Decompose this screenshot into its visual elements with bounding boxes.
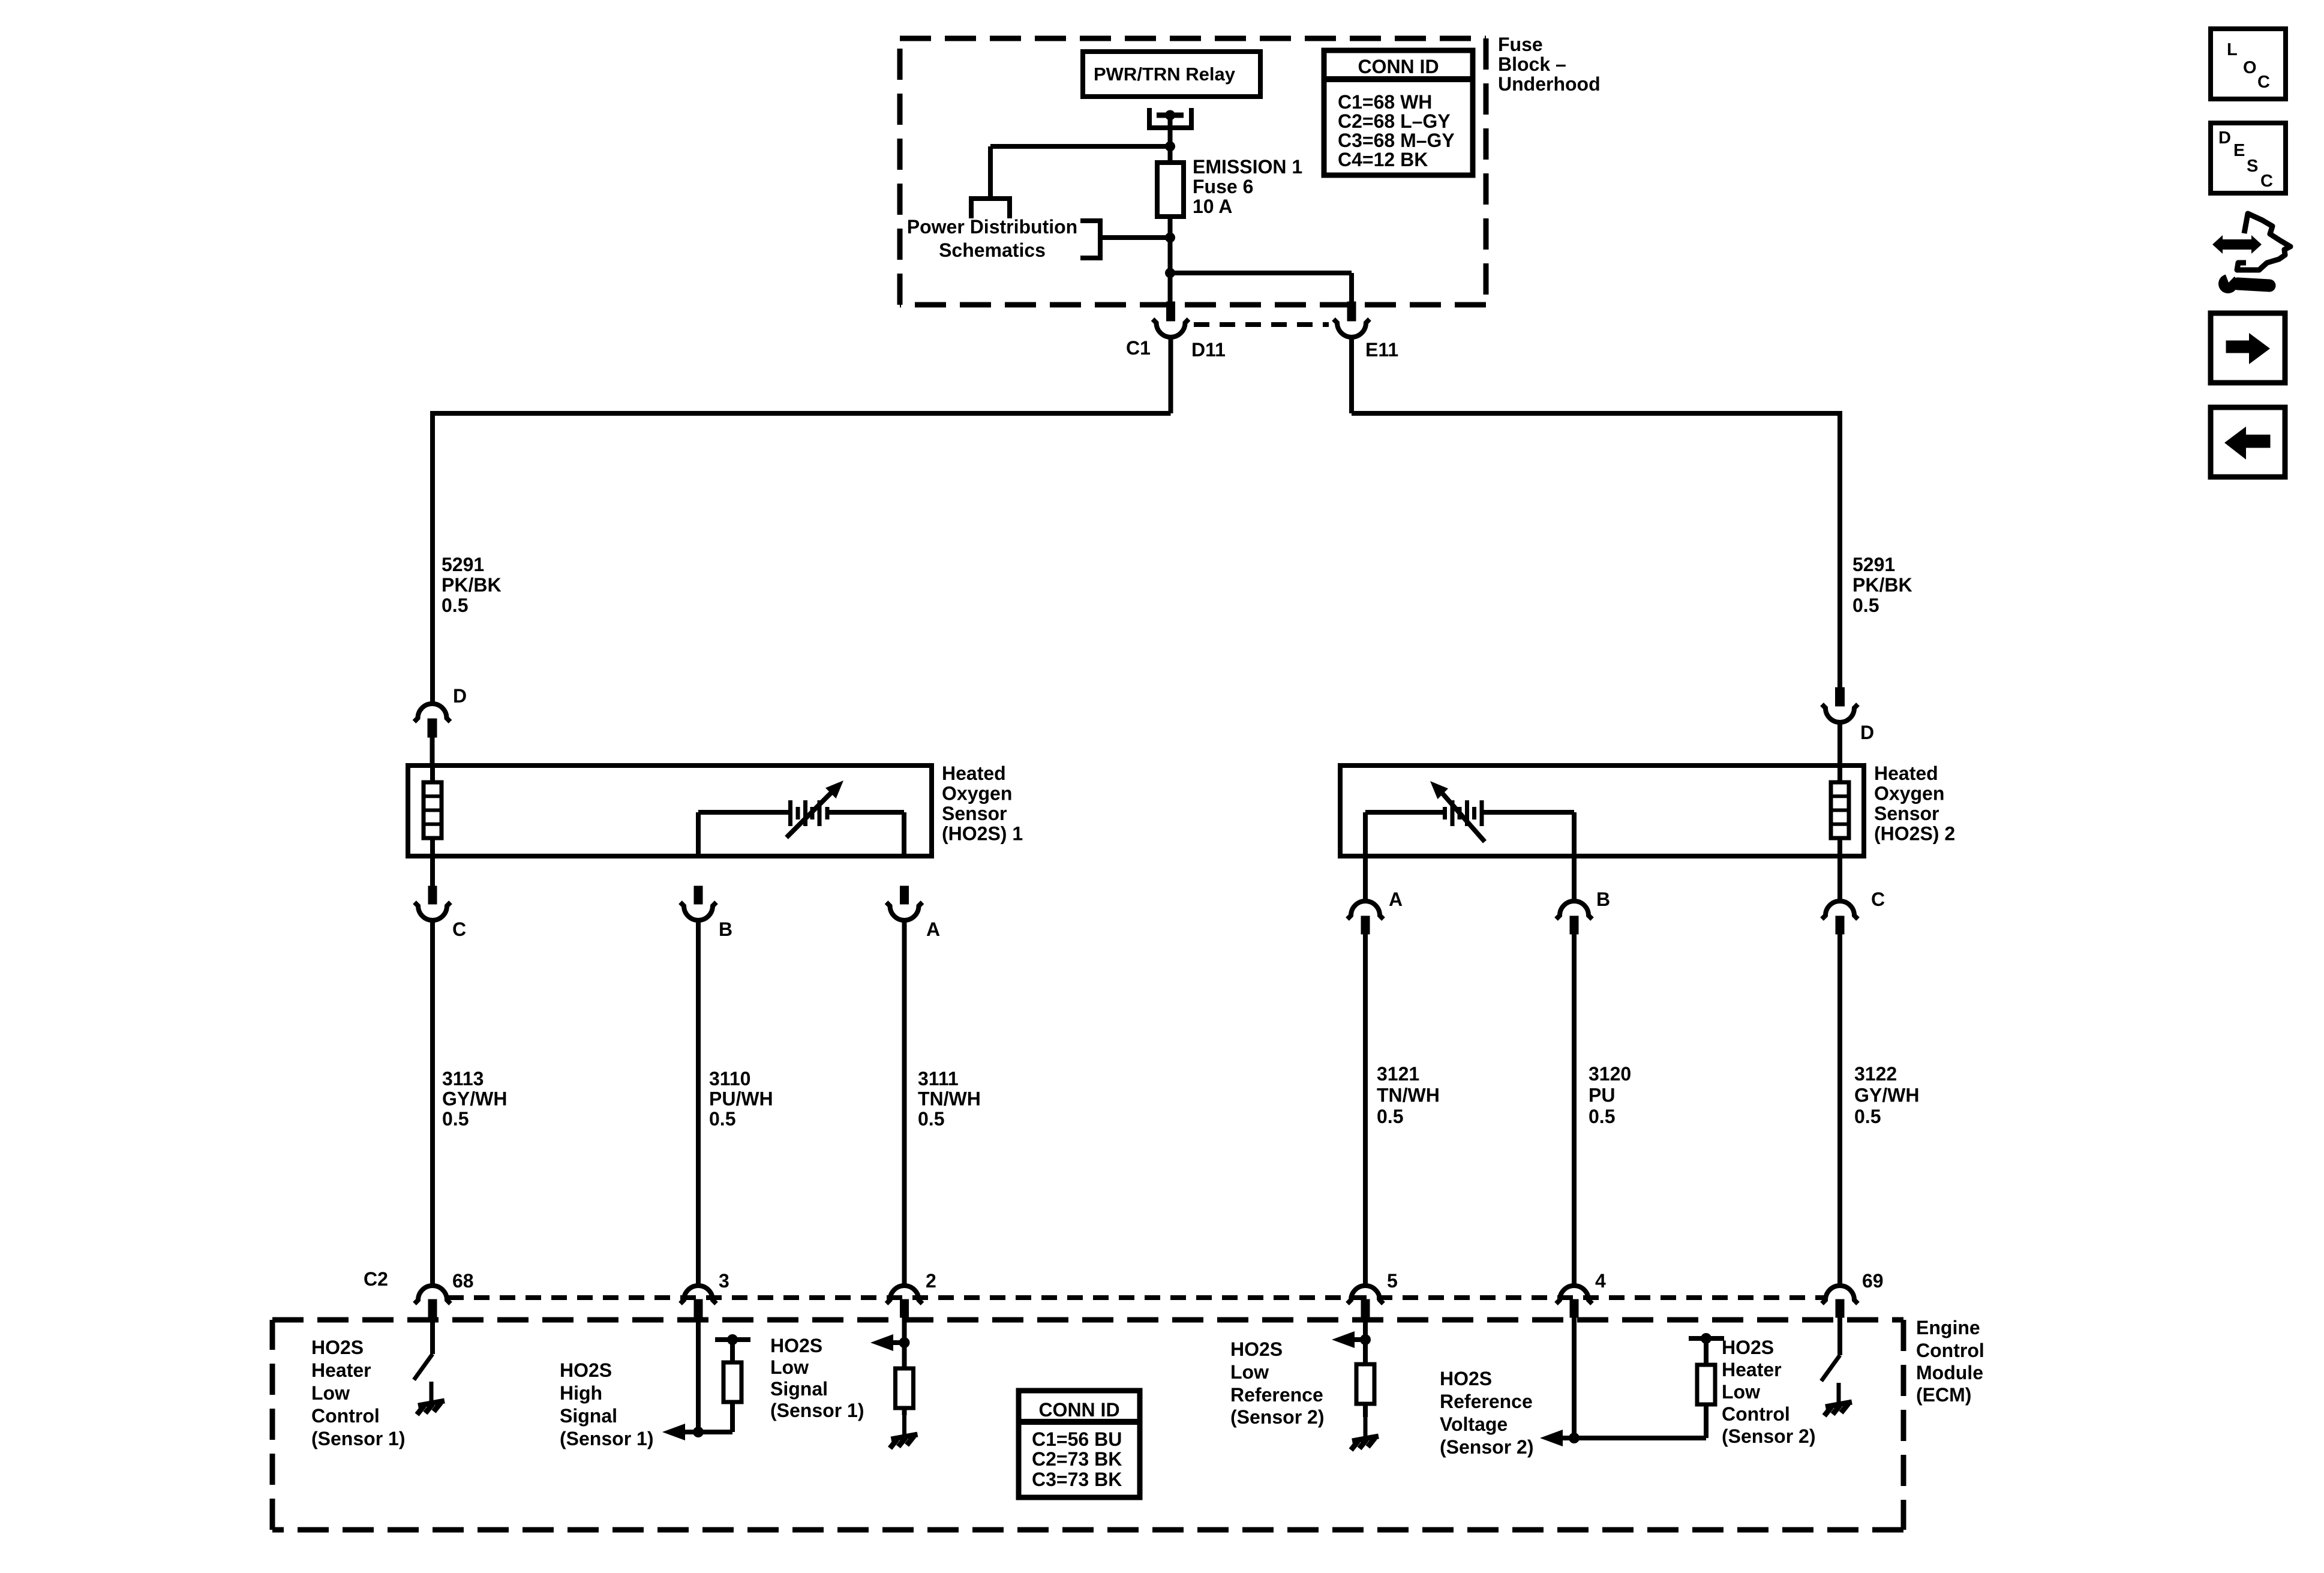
label C (HO2S 1) bbox=[452, 918, 466, 940]
wire fuse bottom lead bbox=[1168, 217, 1173, 302]
svg-text:0.5: 0.5 bbox=[709, 1108, 735, 1130]
wire heater bottom (HO2S1) bbox=[430, 838, 435, 886]
label D11 bbox=[1191, 339, 1226, 361]
signal arrow (HO2S high signal) bbox=[662, 1424, 698, 1440]
wire resistor R3 to ground bbox=[1363, 1404, 1368, 1417]
svg-text:HO2S: HO2S bbox=[1230, 1338, 1283, 1360]
svg-text:C: C bbox=[1871, 888, 1885, 910]
wire heater top (HO2S2) bbox=[1837, 766, 1842, 782]
svg-text:CONN ID: CONN ID bbox=[1358, 56, 1439, 77]
ECM connector pin 69 male terminal bbox=[1836, 1299, 1844, 1317]
signal arrow (HO2S low reference) bbox=[1332, 1331, 1365, 1348]
fuse block label 'Fuse Block - Underhood' bbox=[1498, 34, 1601, 95]
internal rail stub (pin 4) bbox=[1689, 1336, 1724, 1341]
connector pin A (HO2S 2) male terminal bbox=[1361, 916, 1370, 934]
CONN ID table (ECM) bbox=[1019, 1391, 1140, 1497]
svg-text:(HO2S) 2: (HO2S) 2 bbox=[1874, 823, 1955, 845]
switch (HO2S heater low control 2) bbox=[1821, 1355, 1840, 1381]
node: junction below fuse bbox=[1165, 233, 1175, 243]
svg-text:(Sensor 1): (Sensor 1) bbox=[311, 1428, 405, 1449]
svg-text:HO2S: HO2S bbox=[1440, 1368, 1492, 1389]
wire E11 down bbox=[1349, 337, 1354, 413]
wire label 3120 PU 0.5 bbox=[1589, 1063, 1631, 1127]
ground G2 (chassis) for pin 2 bbox=[890, 1415, 918, 1448]
wire HO2S1 sense right segment bbox=[828, 810, 904, 815]
ECM connector pin 5 male terminal bbox=[1361, 1299, 1370, 1317]
svg-text:Heater: Heater bbox=[311, 1359, 371, 1381]
label HO2S High Signal (Sensor 1) bbox=[560, 1359, 653, 1449]
node: branch to E11 bbox=[1165, 268, 1175, 278]
svg-text:Reference: Reference bbox=[1230, 1384, 1323, 1406]
wire HO2S2 sense A leg bbox=[1363, 812, 1368, 856]
HO2S 1 component box bbox=[408, 766, 932, 856]
svg-text:GY/WH: GY/WH bbox=[442, 1088, 507, 1110]
wire heater bottom (HO2S2) bbox=[1837, 838, 1842, 856]
wire relay to branch node bbox=[1168, 115, 1173, 146]
svg-text:3120: 3120 bbox=[1589, 1063, 1631, 1085]
svg-text:PK/BK: PK/BK bbox=[1852, 574, 1912, 596]
svg-text:69: 69 bbox=[1862, 1270, 1884, 1292]
label D (right) bbox=[1860, 722, 1874, 743]
HO2S 2 heater element bbox=[1831, 782, 1849, 838]
ECM connector pin 68 male terminal bbox=[428, 1299, 437, 1317]
label C (HO2S 2) bbox=[1871, 888, 1885, 910]
svg-text:C2=68 L–GY: C2=68 L–GY bbox=[1338, 110, 1451, 132]
ECM connector pin 68 female arc bbox=[415, 1286, 451, 1304]
wire label 3121 TN/WH 0.5 bbox=[1377, 1063, 1440, 1127]
connector pin A (HO2S 2) female arc bbox=[1347, 901, 1383, 919]
svg-text:D: D bbox=[2218, 128, 2231, 148]
connector pin D (HO2S 1) female arc bbox=[415, 704, 451, 722]
wire pin C to ECM 68 bbox=[430, 920, 435, 1286]
wire pin A to ECM 2 bbox=[902, 920, 907, 1286]
svg-text:L: L bbox=[2227, 40, 2238, 59]
wire HO2S2 box to pin C bbox=[1837, 856, 1842, 902]
relay K1 contact bracket bbox=[1149, 108, 1191, 128]
ECM connector pin 3 male terminal bbox=[694, 1299, 702, 1317]
svg-text:GY/WH: GY/WH bbox=[1854, 1085, 1919, 1106]
svg-text:HO2S: HO2S bbox=[770, 1335, 822, 1356]
connector pin A (HO2S 1) male terminal bbox=[900, 886, 909, 904]
svg-text:E: E bbox=[2233, 141, 2245, 160]
svg-text:Fuse: Fuse bbox=[1498, 34, 1543, 55]
ECM connector pin 2 male terminal bbox=[900, 1299, 909, 1317]
svg-text:(ECM): (ECM) bbox=[1916, 1384, 1971, 1406]
connector pin B (HO2S 1) female arc bbox=[680, 902, 716, 920]
svg-text:5: 5 bbox=[1387, 1270, 1398, 1292]
svg-text:C1=56 BU: C1=56 BU bbox=[1032, 1428, 1122, 1450]
wire ECM pin 4 internal bbox=[1572, 1317, 1577, 1438]
label C2 (ECM connector) bbox=[364, 1268, 388, 1290]
ground G4 (chassis) for pin 69 bbox=[1824, 1383, 1852, 1416]
svg-text:TN/WH: TN/WH bbox=[918, 1088, 981, 1110]
connector C1 pin D11 male terminal bbox=[1167, 302, 1175, 321]
label HO2S Heater Low Control (Sensor 2) bbox=[1722, 1337, 1815, 1447]
ECM dashed enclosure bbox=[272, 1320, 1903, 1530]
svg-text:S: S bbox=[2247, 157, 2258, 176]
label B (HO2S 2) bbox=[1596, 888, 1610, 910]
svg-text:E11: E11 bbox=[1365, 339, 1398, 361]
wire resistor R2 to ground bbox=[902, 1408, 907, 1415]
svg-text:TN/WH: TN/WH bbox=[1377, 1085, 1440, 1106]
svg-text:3121: 3121 bbox=[1377, 1063, 1419, 1085]
svg-text:0.5: 0.5 bbox=[1854, 1106, 1881, 1127]
svg-text:Heated: Heated bbox=[942, 763, 1006, 784]
svg-text:C: C bbox=[2260, 172, 2273, 191]
svg-text:Heated: Heated bbox=[1874, 763, 1938, 784]
svg-text:Voltage: Voltage bbox=[1440, 1413, 1508, 1435]
label ECM pin 5 bbox=[1387, 1270, 1398, 1292]
ECM connector pin 69 female arc bbox=[1822, 1286, 1858, 1304]
signal arrow (HO2S low signal) bbox=[870, 1334, 905, 1351]
resistor R4 (pin 4) bbox=[1697, 1365, 1715, 1404]
connector pin D (HO2S 2) male terminal bbox=[1836, 688, 1845, 706]
label ECM pin 2 bbox=[926, 1270, 936, 1292]
fuse F6 EMISSION 1 body bbox=[1157, 163, 1184, 217]
wire D to HO2S1 box bbox=[430, 737, 435, 766]
connector pin C (HO2S 2) female arc bbox=[1822, 901, 1858, 919]
wire HO2S1 sense B leg bbox=[696, 812, 701, 856]
label HO2S Low Reference (Sensor 2) bbox=[1230, 1338, 1324, 1428]
connector pin B (HO2S 2) female arc bbox=[1556, 901, 1592, 919]
ECM connector pin 3 female arc bbox=[680, 1286, 716, 1304]
resistor R1 (pin 3 pull-up) bbox=[723, 1362, 741, 1402]
ground G1 (chassis) for pin 68 bbox=[417, 1382, 445, 1415]
wire pin B to ECM 3 bbox=[696, 920, 701, 1286]
svg-text:D: D bbox=[1860, 722, 1874, 743]
label B (HO2S 1) bbox=[719, 918, 732, 940]
connector pin C (HO2S 2) male terminal bbox=[1836, 916, 1844, 934]
ECM connector pin 4 male terminal bbox=[1570, 1299, 1578, 1317]
svg-text:A: A bbox=[926, 918, 940, 940]
connector pin B (HO2S 2) male terminal bbox=[1570, 916, 1578, 934]
fuse block - underhood dashed enclosure bbox=[900, 38, 1486, 305]
svg-text:Signal: Signal bbox=[770, 1378, 828, 1400]
svg-text:PWR/TRN Relay: PWR/TRN Relay bbox=[1094, 64, 1236, 85]
icon box LOC bbox=[2211, 29, 2286, 99]
label E11 bbox=[1365, 339, 1398, 361]
svg-text:(Sensor 1): (Sensor 1) bbox=[770, 1400, 864, 1421]
wire HO2S2 sense B leg bbox=[1572, 812, 1577, 856]
icon box DESC bbox=[2211, 123, 2286, 193]
svg-text:A: A bbox=[1389, 888, 1403, 910]
label D (left) bbox=[453, 685, 467, 707]
svg-text:Signal: Signal bbox=[560, 1405, 617, 1427]
HO2S 2 variable arrow bbox=[1430, 781, 1485, 842]
svg-text:0.5: 0.5 bbox=[1377, 1106, 1403, 1127]
node: branch to power distribution (upper) bbox=[1165, 142, 1175, 152]
svg-text:Module: Module bbox=[1916, 1362, 1983, 1383]
wire label 3122 GY/WH 0.5 bbox=[1854, 1063, 1919, 1127]
node: pin 3 junction bbox=[693, 1427, 704, 1437]
wire HO2S2 box to pin B bbox=[1572, 856, 1577, 902]
label Heated Oxygen Sensor (HO2S) 2 bbox=[1874, 763, 1955, 845]
off-page bracket (power distribution schematics ref) bbox=[1080, 221, 1100, 258]
svg-text:CONN ID: CONN ID bbox=[1038, 1399, 1119, 1421]
node: relay contact junction bbox=[1165, 110, 1175, 121]
wire junction to resistor leg (pin 4) bbox=[1574, 1404, 1706, 1438]
wire right drop x=3067 bbox=[1837, 411, 1842, 688]
CONN ID table (fuse block) bbox=[1324, 50, 1473, 175]
svg-text:(Sensor 1): (Sensor 1) bbox=[560, 1428, 653, 1449]
resistor R3 (pin 5) bbox=[1356, 1364, 1374, 1404]
svg-text:D: D bbox=[453, 685, 467, 707]
svg-text:0.5: 0.5 bbox=[918, 1108, 944, 1130]
wire D11 down bbox=[1169, 337, 1173, 413]
svg-text:68: 68 bbox=[452, 1270, 474, 1292]
wire label 5291 PK/BK 0.5 (left) bbox=[442, 554, 502, 616]
svg-text:C2=73 BK: C2=73 BK bbox=[1032, 1448, 1122, 1470]
label ECM pin 4 bbox=[1595, 1270, 1606, 1292]
svg-text:Block –: Block – bbox=[1498, 53, 1566, 75]
wire right run at y=691 bbox=[1352, 411, 1840, 416]
wire HO2S2 sense left segment bbox=[1365, 810, 1445, 815]
svg-text:3: 3 bbox=[719, 1270, 729, 1292]
svg-text:2: 2 bbox=[926, 1270, 936, 1292]
HO2S 1 variable arrow bbox=[786, 781, 843, 837]
svg-text:Low: Low bbox=[770, 1356, 809, 1378]
connector C1 pin D11 female arc bbox=[1153, 319, 1189, 337]
icon adjust (hand with wrench) bbox=[2212, 214, 2290, 293]
svg-text:Oxygen: Oxygen bbox=[942, 783, 1012, 804]
svg-text:C1=68 WH: C1=68 WH bbox=[1338, 91, 1432, 113]
icon box arrow right bbox=[2211, 313, 2285, 383]
svg-text:(HO2S) 1: (HO2S) 1 bbox=[942, 823, 1023, 845]
svg-text:Engine: Engine bbox=[1916, 1317, 1980, 1338]
wire label 5291 PK/BK 0.5 (right) bbox=[1852, 554, 1912, 616]
node: pin 4 junction bbox=[1569, 1433, 1580, 1443]
svg-text:0.5: 0.5 bbox=[442, 595, 468, 616]
relay K1 contact bar bbox=[1157, 113, 1184, 118]
svg-text:Reference: Reference bbox=[1440, 1391, 1533, 1412]
connector pin D (HO2S 2) female arc bbox=[1822, 704, 1858, 722]
wire label 3110 PU/WH 0.5 bbox=[709, 1068, 773, 1130]
svg-text:Oxygen: Oxygen bbox=[1874, 783, 1944, 804]
wire fuse top lead bbox=[1168, 146, 1173, 163]
wire HO2S1 sense left segment bbox=[698, 810, 789, 815]
label ECM pin 69 bbox=[1862, 1270, 1884, 1292]
ECM connector pin 2 female arc bbox=[887, 1286, 923, 1304]
svg-text:0.5: 0.5 bbox=[442, 1108, 469, 1130]
svg-text:Low: Low bbox=[311, 1382, 350, 1404]
wire bracket to fuse wire bbox=[1100, 235, 1170, 240]
connector C1 pin E11 female arc bbox=[1334, 319, 1370, 337]
wire ECM pin 2 internal upper bbox=[902, 1317, 907, 1368]
svg-text:Schematics: Schematics bbox=[939, 239, 1046, 261]
svg-text:D11: D11 bbox=[1191, 339, 1226, 361]
svg-text:HO2S: HO2S bbox=[1722, 1337, 1774, 1358]
wire branch left at y=244 bbox=[990, 144, 1170, 149]
label 'Power Distribution Schematics' bbox=[907, 216, 1077, 261]
svg-text:C: C bbox=[452, 918, 466, 940]
svg-text:Control: Control bbox=[311, 1405, 380, 1427]
internal rail stub (pin 3) bbox=[715, 1337, 750, 1342]
svg-text:C3=68 M–GY: C3=68 M–GY bbox=[1338, 130, 1455, 151]
svg-text:Fuse 6: Fuse 6 bbox=[1193, 176, 1253, 197]
connector pin B (HO2S 1) male terminal bbox=[694, 886, 702, 904]
svg-text:0.5: 0.5 bbox=[1852, 595, 1879, 616]
label HO2S Heater Low Control (Sensor 1) bbox=[311, 1337, 405, 1449]
fuse F6 label 'EMISSION 1 / Fuse 6 / 10 A' bbox=[1193, 156, 1302, 217]
svg-text:Power Distribution: Power Distribution bbox=[907, 216, 1077, 238]
svg-text:(Sensor 2): (Sensor 2) bbox=[1230, 1406, 1324, 1428]
connector pin C (HO2S 1) male terminal bbox=[428, 886, 437, 904]
svg-text:C4=12 BK: C4=12 BK bbox=[1338, 149, 1428, 170]
connector pin C (HO2S 1) female arc bbox=[415, 902, 451, 920]
svg-text:B: B bbox=[1596, 888, 1610, 910]
node: pin 5 junction bbox=[1360, 1334, 1371, 1345]
connector C1 pin E11 male terminal bbox=[1347, 302, 1356, 321]
relay K1 name text bbox=[1094, 64, 1236, 85]
connector pin D (HO2S 1) male terminal bbox=[428, 719, 437, 737]
svg-text:(Sensor 2): (Sensor 2) bbox=[1440, 1436, 1533, 1458]
wire heater top (HO2S1) bbox=[430, 766, 435, 782]
svg-text:PK/BK: PK/BK bbox=[442, 574, 502, 596]
svg-text:EMISSION 1: EMISSION 1 bbox=[1193, 156, 1302, 178]
wire ECM pin 69 internal bbox=[1837, 1317, 1842, 1355]
resistor R2 (pin 2) bbox=[896, 1368, 914, 1408]
svg-text:3122: 3122 bbox=[1854, 1063, 1897, 1085]
svg-text:Sensor: Sensor bbox=[1874, 803, 1939, 824]
wire left run at y=691 bbox=[433, 411, 1171, 416]
node: pin 2 junction bbox=[899, 1337, 910, 1348]
svg-text:3110: 3110 bbox=[709, 1068, 750, 1089]
ECM connector pin 4 female arc bbox=[1556, 1286, 1592, 1304]
wire E11 drop bbox=[1349, 273, 1354, 302]
connector pin A (HO2S 1) female arc bbox=[887, 902, 923, 920]
label HO2S Low Signal (Sensor 1) bbox=[770, 1335, 864, 1421]
wire label 3111 TN/WH 0.5 bbox=[918, 1068, 981, 1130]
svg-text:Control: Control bbox=[1916, 1340, 1984, 1361]
label Heated Oxygen Sensor (HO2S) 1 bbox=[942, 763, 1023, 845]
wire HO2S2 sense right segment bbox=[1482, 810, 1574, 815]
svg-text:B: B bbox=[719, 918, 732, 940]
HO2S 2 component box bbox=[1340, 766, 1864, 856]
label ECM pin 3 bbox=[719, 1270, 729, 1292]
ground G3 (chassis) for pin 5 bbox=[1351, 1417, 1379, 1450]
svg-text:5291: 5291 bbox=[442, 554, 484, 575]
svg-text:High: High bbox=[560, 1382, 602, 1404]
off-page bracket (to power distribution) bbox=[971, 199, 1010, 218]
label A (HO2S 1) bbox=[926, 918, 940, 940]
svg-text:C2: C2 bbox=[364, 1268, 388, 1290]
wire left drop x=721 bbox=[430, 411, 435, 704]
svg-text:PU: PU bbox=[1589, 1085, 1615, 1106]
node: rail junction (pin 4) bbox=[1701, 1333, 1712, 1344]
wire resistor R4 to rail bbox=[1704, 1338, 1709, 1365]
svg-text:HO2S: HO2S bbox=[311, 1337, 364, 1358]
wire HO2S1 sense A leg bbox=[902, 812, 906, 856]
svg-text:C3=73 BK: C3=73 BK bbox=[1032, 1469, 1122, 1490]
svg-text:0.5: 0.5 bbox=[1589, 1106, 1615, 1127]
wire ECM pin 5 internal upper bbox=[1363, 1317, 1368, 1364]
wire pin A to ECM 5 bbox=[1363, 934, 1368, 1286]
svg-text:HO2S: HO2S bbox=[560, 1359, 612, 1381]
wire branch drop to off-page bracket bbox=[988, 146, 993, 199]
wire pin B to ECM 4 bbox=[1572, 934, 1577, 1286]
svg-text:Heater: Heater bbox=[1722, 1359, 1782, 1380]
svg-text:Sensor: Sensor bbox=[942, 803, 1007, 824]
connector C1 dashed tie line bbox=[1194, 322, 1329, 327]
label HO2S Reference Voltage (Sensor 2) bbox=[1440, 1368, 1533, 1458]
label A (HO2S 2) bbox=[1389, 888, 1403, 910]
wire label 3113 GY/WH 0.5 bbox=[442, 1068, 507, 1130]
ECM connector pin 5 female arc bbox=[1347, 1286, 1383, 1304]
svg-text:10 A: 10 A bbox=[1193, 196, 1232, 217]
node: rail junction (pin 3) bbox=[727, 1334, 738, 1345]
wire ECM pin 68 internal bbox=[430, 1317, 435, 1354]
svg-text:3113: 3113 bbox=[442, 1068, 484, 1089]
svg-text:Control: Control bbox=[1722, 1403, 1790, 1425]
label Engine Control Module (ECM) bbox=[1916, 1317, 1984, 1406]
wire HO2S2 box to pin A bbox=[1363, 856, 1368, 902]
signal arrow (HO2S reference voltage) bbox=[1540, 1430, 1574, 1446]
svg-text:(Sensor 2): (Sensor 2) bbox=[1722, 1425, 1815, 1447]
wire pin C to ECM 69 bbox=[1837, 934, 1842, 1286]
ECM connector dashed tie line bbox=[448, 1295, 1824, 1300]
switch (HO2S heater low control 1) bbox=[414, 1354, 433, 1380]
wire ECM pin 3 internal bbox=[696, 1317, 701, 1432]
svg-text:PU/WH: PU/WH bbox=[709, 1088, 773, 1110]
svg-text:5291: 5291 bbox=[1852, 554, 1895, 575]
wire D to HO2S2 box bbox=[1837, 722, 1842, 766]
svg-text:Low: Low bbox=[1722, 1381, 1760, 1403]
HO2S 2 sensing cell plates bbox=[1445, 800, 1482, 826]
svg-text:C1: C1 bbox=[1126, 337, 1151, 359]
HO2S 1 sensing cell plates bbox=[791, 800, 828, 826]
HO2S 1 heater element bbox=[424, 782, 442, 838]
svg-text:3111: 3111 bbox=[918, 1068, 959, 1089]
label C1 bbox=[1126, 337, 1151, 359]
wire resistor R1 to rail bbox=[730, 1340, 735, 1362]
svg-text:C: C bbox=[2257, 73, 2270, 92]
svg-text:Underhood: Underhood bbox=[1498, 73, 1601, 95]
wire junction to resistor leg (pin 3) bbox=[698, 1402, 732, 1432]
svg-text:4: 4 bbox=[1595, 1270, 1606, 1292]
svg-text:Low: Low bbox=[1230, 1361, 1269, 1383]
wire branch right at y=455 bbox=[1170, 271, 1352, 275]
svg-text:O: O bbox=[2243, 58, 2257, 77]
label ECM pin 68 bbox=[452, 1270, 474, 1292]
relay K1 'PWR/TRN Relay' name box bbox=[1083, 52, 1260, 97]
icon box arrow left bbox=[2211, 407, 2285, 477]
